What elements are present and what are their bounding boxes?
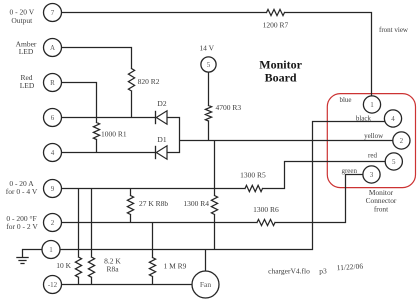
svg-text:for 0 - 4 V: for 0 - 4 V <box>6 187 38 196</box>
svg-text:D2: D2 <box>157 99 166 108</box>
svg-text:yellow: yellow <box>364 132 384 140</box>
svg-text:1200 R7: 1200 R7 <box>263 21 289 30</box>
svg-text:3: 3 <box>370 171 374 179</box>
svg-text:black: black <box>356 115 372 123</box>
svg-text:11/22/06: 11/22/06 <box>336 261 363 272</box>
svg-text:1000 R1: 1000 R1 <box>101 129 127 138</box>
svg-text:green: green <box>341 167 357 175</box>
svg-text:2: 2 <box>400 137 404 145</box>
svg-text:chargerV4.flo: chargerV4.flo <box>268 266 310 275</box>
svg-text:27 K R8b: 27 K R8b <box>139 199 168 208</box>
svg-text:14 V: 14 V <box>199 43 214 52</box>
svg-text:Output: Output <box>11 16 33 25</box>
svg-text:7: 7 <box>51 9 55 17</box>
svg-text:Monitor: Monitor <box>259 57 302 71</box>
svg-text:front view: front view <box>379 26 409 34</box>
svg-text:1: 1 <box>370 101 374 109</box>
svg-text:LED: LED <box>19 47 34 56</box>
svg-text:p3: p3 <box>319 266 327 275</box>
svg-text:red: red <box>368 152 377 160</box>
svg-text:2: 2 <box>51 219 55 227</box>
svg-text:1: 1 <box>49 246 53 254</box>
svg-text:D1: D1 <box>157 135 166 144</box>
svg-text:Fan: Fan <box>200 280 212 289</box>
svg-text:1300 R5: 1300 R5 <box>240 171 266 180</box>
svg-text:-12: -12 <box>48 281 58 289</box>
svg-text:5: 5 <box>392 158 396 166</box>
svg-text:front: front <box>374 204 389 213</box>
svg-text:1300 R4: 1300 R4 <box>183 199 209 208</box>
svg-text:blue: blue <box>339 96 351 104</box>
svg-text:5: 5 <box>207 61 211 69</box>
svg-text:820 R2: 820 R2 <box>138 77 160 86</box>
svg-text:R: R <box>50 79 55 87</box>
svg-text:9: 9 <box>51 185 55 193</box>
svg-text:10 K: 10 K <box>56 261 71 270</box>
svg-text:A: A <box>50 44 55 52</box>
svg-text:4: 4 <box>51 149 55 157</box>
svg-text:LED: LED <box>20 81 35 90</box>
svg-text:R8a: R8a <box>106 265 119 274</box>
svg-text:1300 R6: 1300 R6 <box>253 205 279 214</box>
svg-text:4700 R3: 4700 R3 <box>216 103 242 112</box>
svg-text:1 M R9: 1 M R9 <box>164 261 187 270</box>
svg-text:Board: Board <box>265 70 297 84</box>
svg-text:6: 6 <box>51 114 55 122</box>
svg-text:4: 4 <box>391 115 395 123</box>
svg-text:for 0 - 2 V: for 0 - 2 V <box>6 222 38 231</box>
